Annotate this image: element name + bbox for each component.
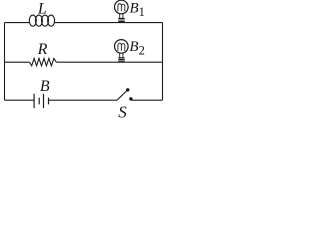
wire middle-left segment <box>5 61 30 63</box>
battery B <box>34 94 48 108</box>
lamp B2 <box>115 40 129 61</box>
svg-text:B1: B1 <box>130 0 145 19</box>
lamp B1 <box>115 0 129 21</box>
wire bottom-left segment <box>5 99 35 101</box>
wire battery-to-switch segment <box>49 99 118 101</box>
svg-text:B: B <box>40 78 50 95</box>
wire middle-right segment <box>56 61 162 63</box>
wire right vertical <box>162 23 164 101</box>
wire top-left segment <box>5 22 31 24</box>
svg-text:S: S <box>118 103 127 122</box>
svg-text:R: R <box>37 41 48 58</box>
resistor R zigzag <box>30 58 57 65</box>
wire left vertical <box>4 23 6 101</box>
svg-text:L: L <box>37 1 47 18</box>
inductor L coil <box>29 15 54 26</box>
svg-text:B2: B2 <box>129 39 144 58</box>
switch S <box>117 88 133 101</box>
wire top-right segment <box>54 22 163 24</box>
wire switch-to-right segment <box>131 99 163 101</box>
